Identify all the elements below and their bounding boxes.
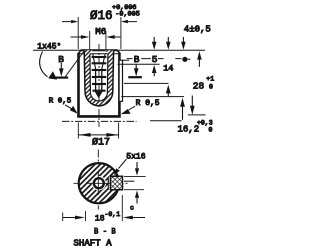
- keyway top reference line: [123, 59, 130, 61]
- down arrow onto slot top: [136, 162, 138, 170]
- up arrow onto slot bottom: [136, 197, 138, 204]
- svg-text:Ø17: Ø17: [92, 136, 110, 148]
- keyway slot white: [108, 176, 119, 189]
- section arrow B right: [135, 65, 137, 70]
- svg-text:18: 18: [95, 214, 105, 223]
- svg-text:c: c: [130, 205, 134, 212]
- svg-text:R 0,5: R 0,5: [136, 99, 160, 108]
- phantom dash-dot line below body: [62, 120, 137, 122]
- svg-text:SHAFT A: SHAFT A: [74, 239, 113, 249]
- chamfer base line: [78, 53, 120, 55]
- svg-text:R 0,5: R 0,5: [49, 97, 72, 105]
- top face thick segment: [81, 49, 118, 51]
- body right edge: [118, 53, 121, 117]
- dimension M6: [71, 31, 121, 50]
- dash-dot line with B and 5 labels: [127, 58, 191, 61]
- arc leader of chamfer callout: [40, 52, 48, 77]
- section B-B tick left: [53, 76, 69, 78]
- svg-text:0: 0: [209, 84, 213, 91]
- svg-text:-0,1: -0,1: [105, 211, 121, 218]
- center tapped hole: [92, 176, 106, 190]
- horizontal centerline lower view: [74, 182, 130, 184]
- dimension 18: [63, 195, 145, 221]
- up arrow to y64 line (dim 5): [153, 72, 155, 76]
- chamfer diagonal right: [117, 50, 120, 54]
- svg-text:16,2: 16,2: [178, 125, 200, 135]
- svg-text:5x16: 5x16: [126, 153, 145, 162]
- body bottom edge: [77, 115, 121, 118]
- up arrow to y96.8 line: [182, 105, 184, 120]
- key width dim extension lines: [124, 175, 146, 177]
- thread inner contour: [90, 54, 108, 101]
- svg-text:-0,005: -0,005: [115, 10, 139, 18]
- reference line y114.9: [188, 114, 206, 116]
- centerline vertical upper view: [98, 44, 100, 127]
- reference line y96.8: [121, 96, 184, 98]
- svg-text:B: B: [134, 54, 140, 65]
- svg-text:M6: M6: [95, 26, 106, 37]
- core pilot hole walls: [96, 69, 102, 93]
- reference line y120.6: [150, 120, 182, 122]
- svg-text:B: B: [58, 54, 64, 65]
- thread rungs: [92, 56, 107, 58]
- section B-B tick right: [128, 76, 142, 78]
- dimension Ø17: [78, 123, 118, 139]
- top face line extended (1x45 callout line + right reference L1): [33, 49, 205, 51]
- leader R0,5 right: [129, 106, 136, 110]
- shaft circle hatched: [79, 163, 119, 203]
- thread outer contour: [84, 50, 113, 106]
- leader 5x16: [119, 159, 127, 169]
- up arrow to top line (dim 28): [198, 59, 200, 67]
- leader R0,5 left: [65, 105, 73, 110]
- dim line stub between slot arrows: [124, 180, 135, 182]
- up arrow to y83.4 line (dim 14): [167, 92, 169, 97]
- svg-text:5: 5: [152, 54, 158, 65]
- thread band (hatched U): [84, 50, 113, 106]
- svg-text:+1: +1: [206, 75, 214, 82]
- svg-text:Ø16: Ø16: [90, 9, 113, 23]
- svg-text:B - B: B - B: [94, 227, 116, 237]
- thread runout funnel: [93, 54, 105, 69]
- drill cone: [96, 92, 102, 98]
- key side view at right edge: [120, 60, 123, 101]
- reference line y64: [118, 63, 160, 65]
- svg-text:4±0,5: 4±0,5: [184, 24, 211, 34]
- reference line y83.4: [124, 82, 169, 84]
- svg-text:14: 14: [163, 63, 173, 73]
- three down arrows onto top face line (4+-0,5 group): [153, 37, 155, 43]
- dot terminator: [182, 57, 187, 62]
- svg-text:0: 0: [209, 127, 213, 134]
- svg-text:1x45°: 1x45°: [37, 43, 61, 52]
- dimension Ø16: [62, 17, 137, 49]
- svg-text:28: 28: [193, 81, 205, 92]
- diagonal leader to chamfer corner: [65, 52, 84, 78]
- key cross-section (cross hatched): [110, 176, 122, 190]
- vertical centerline lower view: [97, 150, 99, 210]
- down arrow to y114.9 (dim 28): [191, 96, 193, 107]
- crosshair centerlines over hole: [97, 171, 99, 195]
- chamfer diagonal left: [78, 50, 81, 54]
- body left edge: [77, 53, 80, 117]
- section arrow B left: [60, 63, 62, 70]
